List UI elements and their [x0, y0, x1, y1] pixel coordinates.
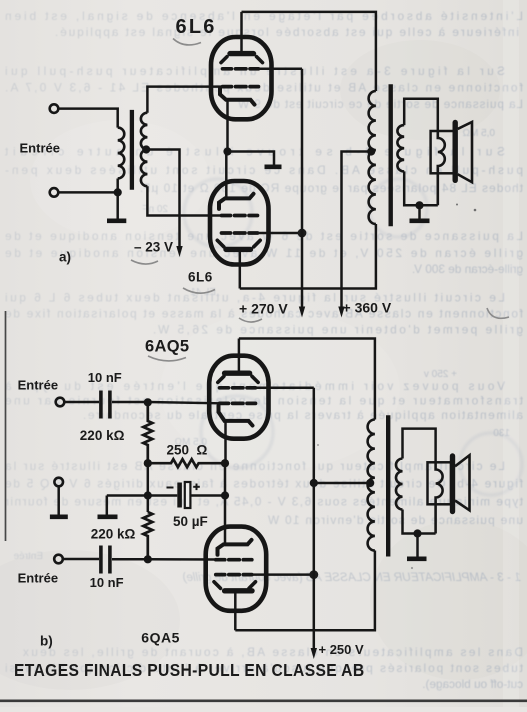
svg-text:thodes EL 84 polarisées par le: thodes EL 84 polarisées par le groupe RC…	[140, 181, 523, 195]
svg-text:1 - 3 - AMPLIFICATEUR EN CLASS: 1 - 3 - AMPLIFICATEUR EN CLASSE AB (avec…	[182, 570, 521, 584]
arrow +270V	[299, 307, 305, 318]
node R1 bottom junction	[144, 459, 152, 467]
resistor R3 250 ohm	[148, 459, 225, 467]
V2 control grid g1 dashes	[222, 214, 258, 218]
V2 screen grid g2 dashes	[222, 231, 258, 235]
node speaker ground junction	[415, 201, 423, 209]
top rail circuit b	[239, 339, 375, 420]
wire J2 to node	[59, 191, 118, 194]
transformer T2 primary winding	[369, 91, 376, 224]
node T1 secondary center tap	[142, 145, 150, 153]
input terminal J1 (circuit a)	[50, 104, 59, 113]
V4 anode plate and lead to bottom rail	[225, 591, 252, 631]
wire T1 secondary top to V1 grid	[147, 87, 221, 113]
svg-text:220 kΩ: 220 kΩ	[91, 527, 136, 542]
transformer T3 primary winding	[368, 420, 375, 551]
speaker LS1 voice coil	[438, 131, 445, 205]
input terminal J4 (circuit b bottom)	[54, 555, 63, 564]
speaker LS1 magnet bar	[453, 123, 458, 181]
capacitor C3 50uF electrolytic	[148, 482, 225, 508]
wire V3 screen to +250V bus	[256, 387, 314, 390]
V3 screen grid g2 dashes	[220, 386, 256, 390]
wire center tap to +360V feed	[342, 152, 372, 309]
pencil underline +270V	[239, 318, 262, 322]
svg-text:+ 360 V: + 360 V	[343, 300, 392, 316]
svg-text:Dans les amplificateurs en cla: Dans les amplificateurs en classe AB, à …	[23, 645, 523, 659]
speaker LS2 frame	[428, 462, 452, 504]
wire bias bus down	[147, 463, 150, 496]
wire T2 secondary bottom	[404, 171, 438, 205]
+270V screen bus	[301, 69, 304, 309]
wire J4 to capacitor C2	[63, 558, 99, 561]
V3 beam plates	[218, 376, 258, 382]
V1 cathode	[220, 88, 255, 105]
V3 control grid g1 dashes	[220, 402, 256, 406]
resistor R2 220k	[143, 512, 152, 559]
tube V2 6L6 envelope (circuit a)	[210, 181, 269, 265]
page rule left	[5, 311, 7, 541]
right page shading	[503, 0, 519, 707]
V2 beam plates	[217, 240, 260, 247]
svg-text:+ 250 v: + 250 v	[424, 369, 457, 380]
capacitor C1 10nF	[101, 391, 110, 419]
ground (input common)	[50, 486, 68, 516]
labels circuit a	[20, 16, 392, 317]
V3 anode plate and lead to top rail	[225, 339, 250, 374]
V1 control grid g1 dashes	[223, 85, 259, 89]
wire J3 to capacitor C1	[65, 401, 100, 404]
svg-text:220 kΩ: 220 kΩ	[80, 428, 125, 443]
input terminal J2 (circuit a)	[50, 188, 59, 197]
labels circuit b	[14, 338, 364, 681]
V2 cathode	[219, 194, 254, 209]
svg-text:grille permet d'obtenir une pu: grille permet d'obtenir une puissance de…	[153, 323, 523, 337]
node grid V3 junction	[144, 398, 152, 406]
wire bias bus down 2	[147, 496, 150, 513]
wire T2 secondary top to voice coil	[404, 99, 438, 131]
svg-text:type miniature alimentées sous: type miniature alimentées sous 6,3 V - 0…	[5, 495, 523, 509]
svg-text:50 µF: 50 µF	[173, 514, 208, 529]
node primary bottom junction	[114, 188, 122, 196]
ground (bias network)	[98, 496, 118, 517]
wire T3 secondary bottom	[403, 510, 436, 534]
arrow -23V	[176, 246, 182, 257]
grounded input terminal J5	[54, 478, 63, 487]
pencil mark near +360V	[487, 308, 509, 318]
ground (speaker circuit a)	[410, 205, 430, 221]
svg-text:+ 270 V: + 270 V	[239, 301, 288, 317]
node T2 primary center tap	[367, 147, 375, 155]
wire T3 secondary top to voice coil	[403, 429, 436, 463]
svg-text:Sur la figure 3-a est illustré: Sur la figure 3-a est illustré un amplif…	[5, 64, 505, 78]
node T3 primary center tap	[366, 479, 374, 487]
transformer T1 core	[130, 110, 134, 190]
wire J1 to transformer T1 primary top	[59, 109, 118, 128]
svg-text:10 nF: 10 nF	[88, 370, 122, 385]
V1 beam plates	[221, 57, 263, 63]
speaker LS1 frame	[431, 131, 454, 173]
V4 beam plates	[214, 582, 256, 589]
node C3 right junction	[221, 491, 229, 499]
ground (speaker circuit b)	[407, 534, 427, 559]
resistor R1 220k	[143, 402, 152, 463]
wire V1 cathode down to node K	[226, 100, 229, 152]
bottom rail circuit b	[235, 551, 375, 631]
svg-text:Entrée: Entrée	[18, 570, 58, 585]
speaker LS2 cone	[455, 455, 470, 510]
pencil marks	[131, 39, 509, 361]
arrow +360V	[338, 307, 344, 318]
wire V2 screen to +270V bus	[258, 232, 303, 235]
node speaker ground junction b	[413, 529, 421, 537]
top rail circuit a	[242, 12, 376, 91]
svg-text:– 23 V: – 23 V	[134, 240, 173, 255]
wire C2 to V4 grid	[112, 558, 217, 561]
wire V3 cathode down to bias bus	[224, 421, 227, 463]
svg-text:6AQ5: 6AQ5	[145, 338, 189, 356]
speaker LS2 magnet bar	[450, 456, 455, 512]
svg-text:ETAGES FINALS PUSH-PULL EN CLA: ETAGES FINALS PUSH-PULL EN CLASSE AB	[14, 660, 364, 680]
pencil underline 6L6 top	[173, 39, 201, 45]
wire T1 secondary bottom to V2 grid	[147, 186, 220, 215]
V1 screen grid g2 dashes	[223, 67, 259, 71]
bottom rail circuit a	[240, 224, 376, 289]
pencil underline 6L6 bottom	[183, 288, 215, 293]
V4 cathode	[218, 540, 252, 555]
transformer T1 primary winding	[118, 128, 125, 179]
paper blemish specks	[317, 204, 476, 570]
transformer T3 secondary winding	[396, 459, 403, 510]
page rule bottom	[0, 699, 527, 702]
wire V4 screen to +250V bus	[252, 573, 314, 576]
wire C1 to V3 grid	[112, 402, 221, 403]
bleed-through schematic shapes from reverse page	[184, 179, 522, 495]
transformer T3 core	[386, 415, 390, 556]
wire V1 screen to +270V bus	[259, 68, 303, 71]
wire ground tap	[107, 494, 148, 497]
input terminal J3 (circuit b top)	[56, 398, 65, 407]
node R3 right junction	[221, 459, 229, 467]
tube V4 6AQ5 envelope (circuit b bottom)	[206, 527, 267, 611]
svg-text:250 Ω: 250 Ω	[167, 443, 208, 458]
arrow +250V	[311, 648, 317, 659]
wire T1 primary bottom to node	[116, 179, 119, 193]
svg-text:0,5 MΩ: 0,5 MΩ	[462, 128, 495, 139]
transformer T1 secondary winding	[141, 113, 148, 187]
ground (input transformer)	[107, 192, 126, 220]
svg-text:Entrée: Entrée	[13, 551, 43, 562]
transformer T2 core	[389, 84, 393, 226]
svg-text:+ 250 V: + 250 V	[319, 642, 365, 657]
node grid V4 junction	[144, 555, 152, 563]
+250V screen bus	[313, 388, 316, 651]
svg-text:a): a)	[59, 250, 71, 265]
svg-text:6L6: 6L6	[188, 270, 213, 285]
node K cathode junction	[223, 147, 231, 155]
node V2 screen junction on bus	[298, 229, 307, 238]
pencil underline -23V	[131, 260, 158, 264]
node V4 screen junction on bus	[309, 570, 318, 579]
V4 control grid g1 dashes	[216, 558, 252, 562]
node C3 left junction	[144, 491, 152, 499]
wire center tap to -23V feed	[146, 150, 179, 249]
svg-text:6QA5: 6QA5	[141, 630, 180, 646]
svg-text:Entrée: Entrée	[20, 141, 60, 156]
tube V3 6AQ5 envelope (circuit b top)	[209, 356, 268, 439]
V2 anode plate and lead to bottom rail	[226, 249, 251, 288]
svg-text:une puissance de sortie d'envi: une puissance de sortie d'environ 10 W	[267, 513, 523, 527]
wire V2 cathode up to node K	[225, 152, 228, 199]
node +250V feed junction	[310, 479, 318, 487]
pencil underline 6AQ5	[148, 356, 186, 361]
capacitor C2 10nF	[101, 546, 110, 574]
svg-text:b): b)	[40, 634, 53, 649]
C3 polarity signs	[167, 484, 200, 491]
speaker LS2 voice coil	[436, 462, 443, 533]
V1 anode plate and lead to top rail	[230, 12, 254, 54]
speaker LS1 cone	[458, 122, 472, 182]
svg-text:inférieure à celle qui est abs: inférieure à celle qui est absorbée lors…	[55, 25, 519, 39]
svg-text:Entrée: Entrée	[18, 378, 58, 393]
V4 screen grid g2 dashes	[216, 573, 252, 577]
svg-text:6L6: 6L6	[176, 16, 217, 38]
svg-text:figure 4-b. Ce circuit utilise: figure 4-b. Ce circuit utilise deux tétr…	[5, 477, 523, 491]
svg-text:La puissance de sortie de ce c: La puissance de sortie de ce circuit est…	[237, 97, 523, 111]
tube V1 6L6 envelope (circuit a)	[211, 37, 272, 119]
ground (cathodes circuit a)	[228, 152, 282, 167]
svg-text:10 nF: 10 nF	[90, 575, 124, 590]
wire center tap to +250V bus	[314, 482, 370, 485]
V3 cathode	[219, 406, 253, 426]
wire cathode bus	[224, 463, 227, 544]
transformer T2 secondary winding	[397, 125, 404, 171]
